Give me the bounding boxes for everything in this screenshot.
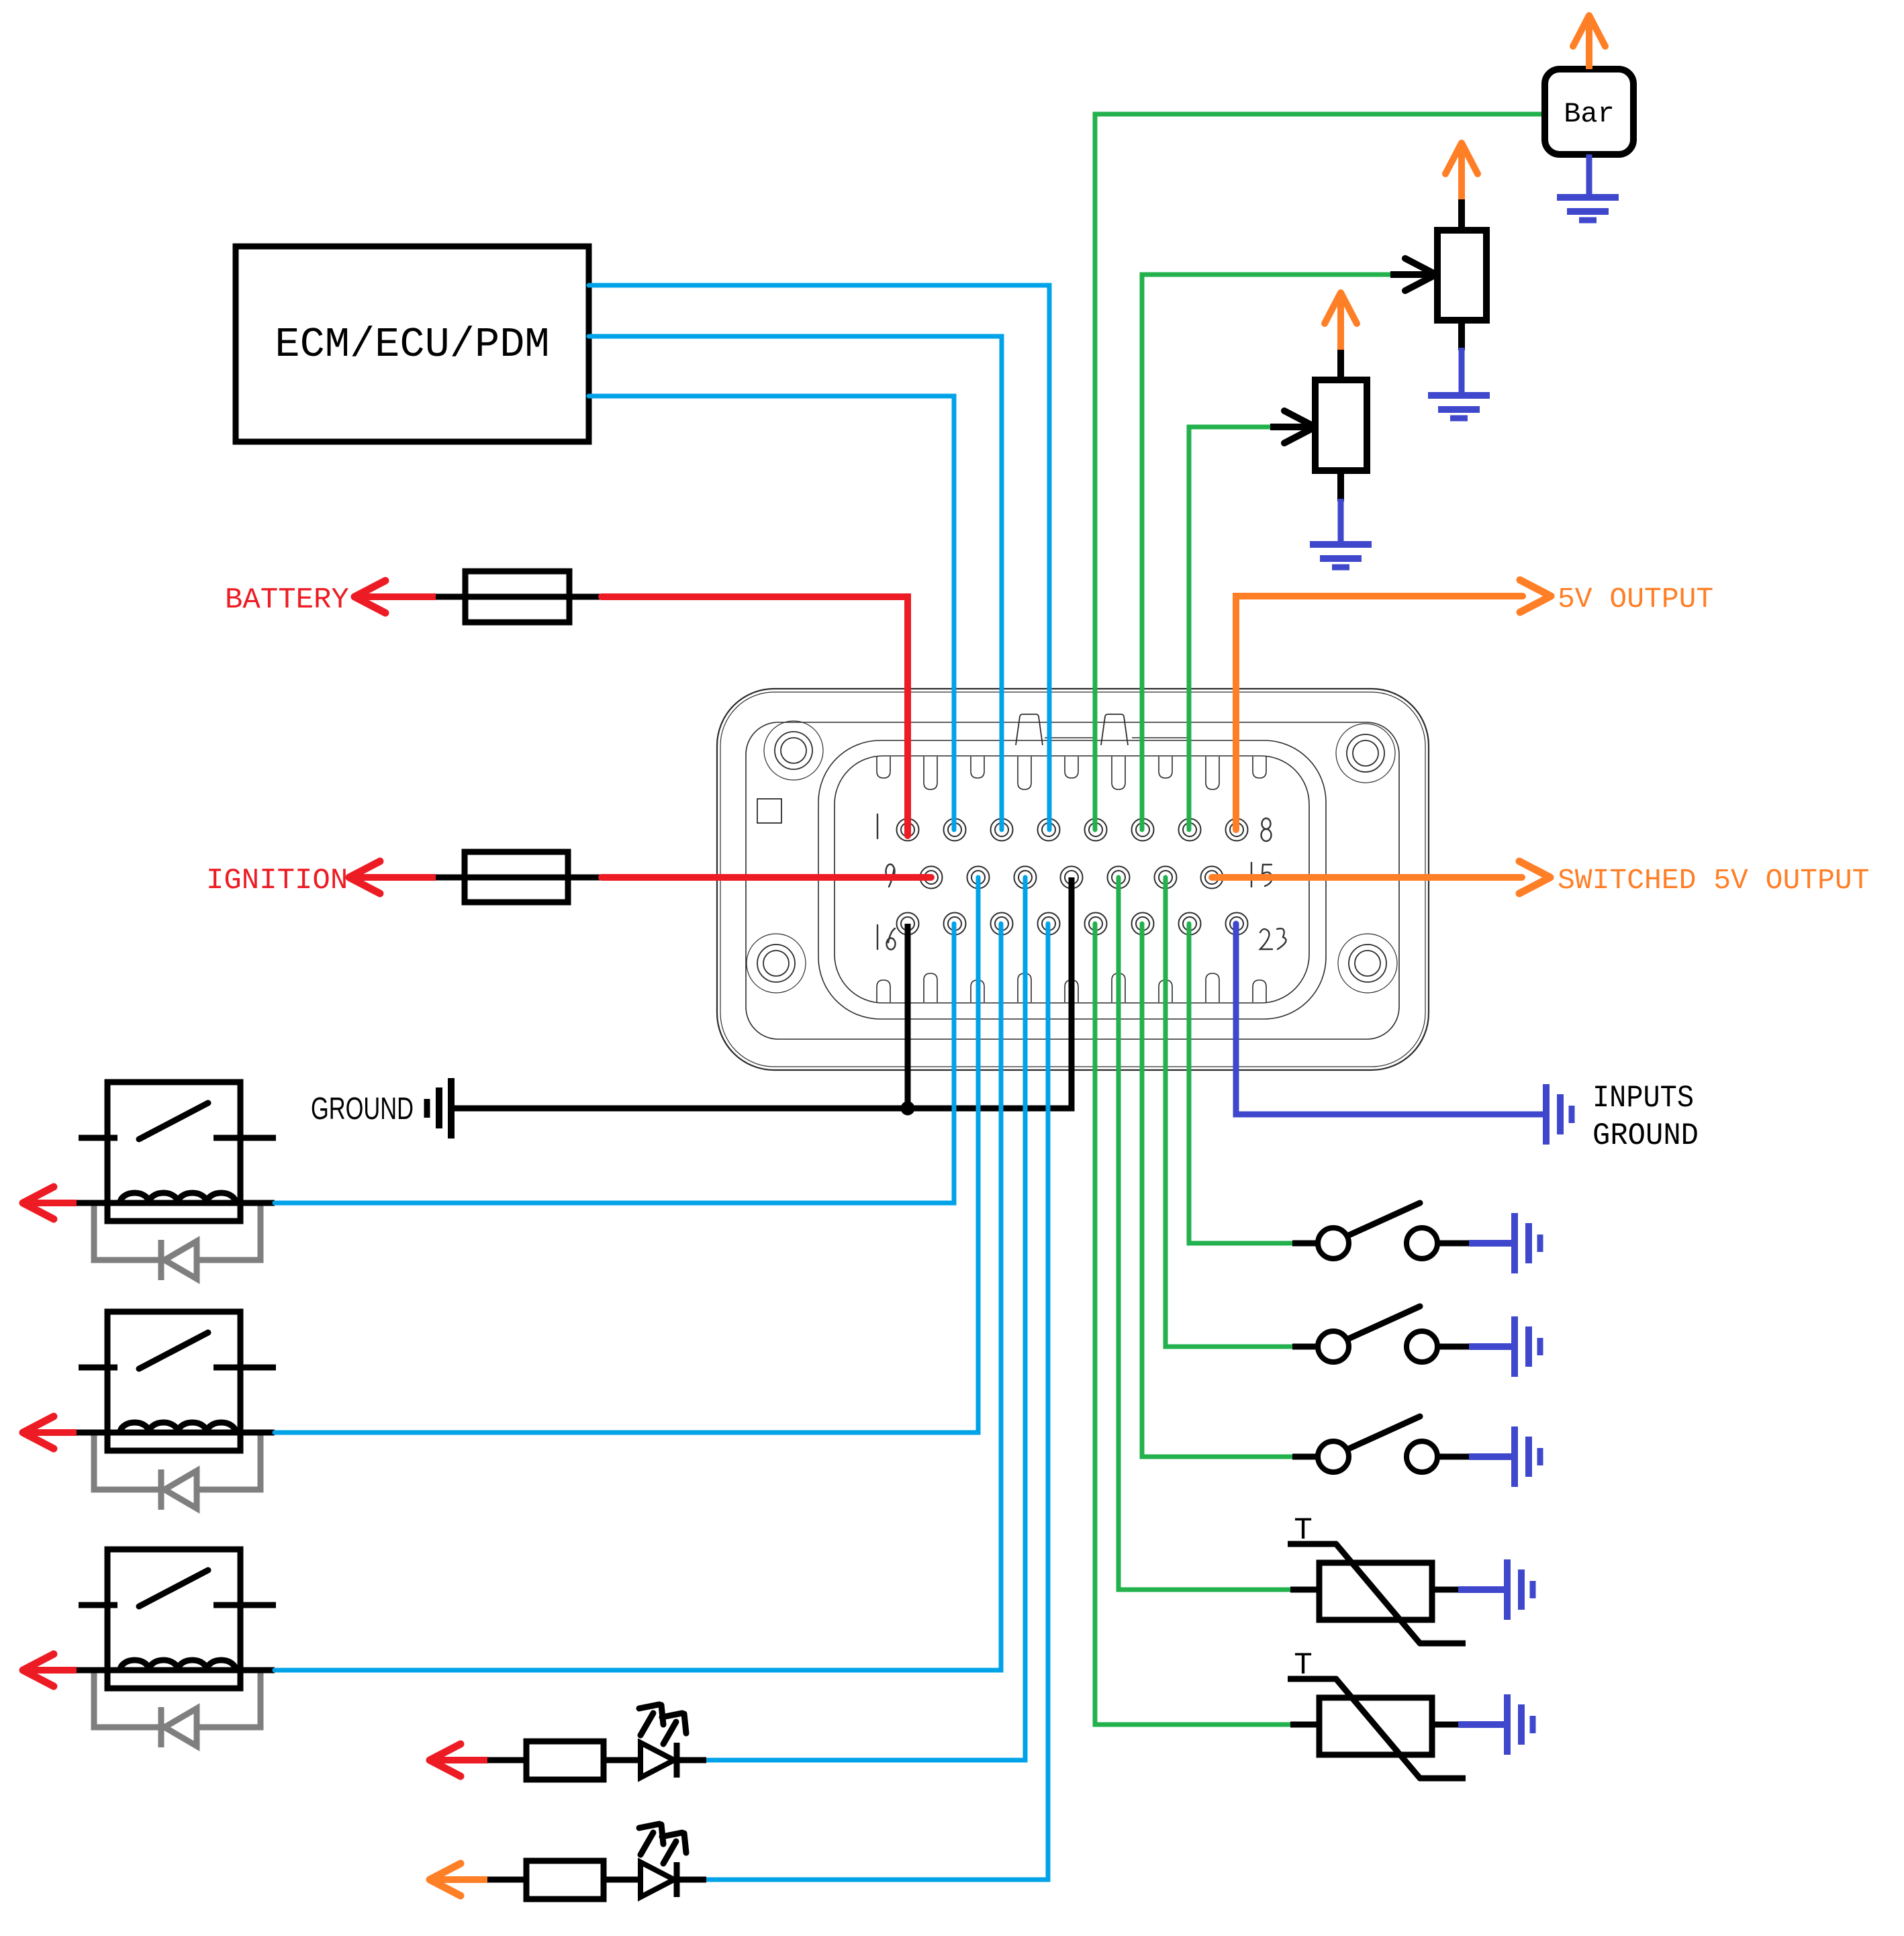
supply arrow at LED2 (orange) [430, 1864, 487, 1896]
flyback diode D2 (gray) [94, 1433, 260, 1510]
SWITCHED 5V OUTPUT arrow [1519, 861, 1550, 893]
BATTERY arrow [354, 581, 385, 613]
supply arrow at relay K2 (red) [23, 1416, 77, 1449]
5V OUTPUT label [1558, 583, 1713, 616]
svg-text:GROUND: GROUND [311, 1091, 414, 1126]
ground symbol under Bar [1557, 197, 1619, 220]
pin 9 label [886, 865, 895, 887]
ground symbol at RT2 [1458, 1694, 1533, 1755]
wire pin 13 to thermistor RT1 (green) [1118, 877, 1290, 1590]
wire pin 8 to 5V OUTPUT (orange) [1236, 596, 1523, 830]
wire R2 to ground (indigo) [1338, 499, 1344, 546]
ground symbol at S2 [1469, 1316, 1540, 1377]
T label at RT2 [1294, 1648, 1313, 1683]
pin 1 label [877, 814, 878, 838]
pin 16 label [877, 925, 896, 950]
5V OUTPUT arrow [1520, 580, 1551, 612]
svg-text:INPUTS: INPUTS [1592, 1081, 1694, 1116]
svg-text:BATTERY: BATTERY [225, 583, 349, 617]
IGNITION arrow [349, 861, 380, 893]
switch S2 (SPST to ground) [1292, 1306, 1469, 1362]
connector pin circles (pins 1-23) [897, 819, 1248, 935]
wire pin 19 to LED2 (blue) [706, 924, 1048, 1880]
pin 23 label [1260, 928, 1286, 949]
supply arrow at LED1 (red) [430, 1744, 487, 1776]
wire pin 23 to inputs ground (indigo) [1236, 924, 1546, 1114]
wire ECM to pin 4 (blue) [589, 285, 1049, 830]
svg-text:ECM/ECU/PDM: ECM/ECU/PDM [275, 321, 549, 369]
fuse F1 (battery feed) [436, 571, 602, 622]
potentiometer R2 (wiper arrow + element) [1270, 347, 1367, 501]
flyback diode D1 (gray) [94, 1203, 260, 1280]
wire pin 18 to relay K3 (blue) [275, 924, 1001, 1670]
wire pin 15 to SWITCHED 5V OUTPUT (orange) [1212, 874, 1522, 881]
pin 8 label [1262, 818, 1272, 841]
wire pin 11 to LED1 (blue) [706, 877, 1025, 1760]
relay K1 (coil + SPST contact) [77, 1082, 276, 1221]
wire pin 14 to switch S2 (green) [1165, 877, 1292, 1347]
wire pin 7 to pot R2 (green) [1189, 427, 1270, 830]
wire pin 21 to switch S3 (green) [1142, 924, 1292, 1457]
wire pin 6 to pot R1 (green) [1142, 275, 1390, 830]
wire R1 to ground (indigo) [1459, 348, 1465, 397]
pin 15 label [1251, 863, 1272, 887]
ground symbol under R2 [1310, 544, 1372, 567]
wire pin 17 to relay K1 (blue) [275, 924, 954, 1203]
wire pin 16 to ground bus (black) [905, 924, 911, 1111]
svg-text:SWITCHED 5V OUTPUT: SWITCHED 5V OUTPUT [1558, 864, 1869, 897]
switch S3 (SPST to ground) [1292, 1416, 1469, 1472]
junction pin 16 / ground bus [901, 1102, 914, 1115]
T label at RT1 [1294, 1513, 1313, 1548]
wire ECM to pin 3 (blue) [589, 336, 1002, 830]
IGNITION label [206, 864, 348, 898]
SWITCHED 5V OUTPUT label [1558, 864, 1869, 897]
wire Bar to ground (indigo) [1586, 154, 1592, 199]
wire pin 10 to relay K2 (blue) [275, 877, 978, 1433]
Bar label [1564, 98, 1615, 130]
ECM/ECU/PDM box U1 [236, 246, 589, 442]
flyback diode D3 (gray) [94, 1670, 260, 1747]
wire pin 22 to switch S1 (green) [1189, 924, 1292, 1243]
connector J1 (AMPSEAL 23-pin housing outline) [717, 689, 1429, 1070]
INPUTS GROUND label [1592, 1081, 1699, 1153]
LED1 symbol [604, 1704, 706, 1778]
GROUND label [311, 1091, 414, 1126]
svg-text:GROUND: GROUND [1592, 1118, 1699, 1153]
wire ground bus from pin 12 (black) [455, 877, 1072, 1108]
thermistor RT1 [1288, 1544, 1466, 1643]
thermistor RT2 [1288, 1679, 1466, 1778]
fuse F2 (ignition feed) [436, 852, 602, 902]
relay K2 (coil + SPST contact) [77, 1312, 276, 1451]
ground symbol at S1 [1469, 1213, 1540, 1273]
wire ignition to pin 9 (red) [349, 874, 931, 881]
svg-text:T: T [1294, 1648, 1313, 1683]
svg-text:5V OUTPUT: 5V OUTPUT [1558, 583, 1713, 616]
wire ECM to pin 2 (blue) [589, 396, 954, 830]
wire pin 5 to Bar sensor (green) [1095, 114, 1545, 830]
ECM/ECU/PDM label [275, 321, 549, 369]
5V supply arrow at R1 (orange) [1445, 143, 1478, 199]
svg-text:T: T [1294, 1513, 1313, 1548]
series resistor at LED1 [487, 1741, 604, 1780]
5V supply arrow at Bar (orange) [1573, 15, 1605, 69]
svg-text:Bar: Bar [1564, 98, 1615, 130]
potentiometer R1 (wiper arrow + element) [1390, 197, 1486, 350]
supply arrow at relay K1 (red) [23, 1187, 77, 1219]
LED2 symbol [604, 1824, 706, 1897]
ground symbol at RT1 [1458, 1559, 1533, 1620]
supply arrow at relay K3 (red) [23, 1654, 77, 1686]
series resistor at LED2 [487, 1861, 604, 1899]
wire pin 20 to thermistor RT2 (green) [1095, 924, 1290, 1725]
switch S1 (SPST to ground) [1292, 1203, 1469, 1259]
ground symbol inputs ground [1546, 1084, 1572, 1145]
ground symbol under R1 [1428, 395, 1490, 418]
relay K3 (coil + SPST contact) [77, 1549, 276, 1688]
BATTERY label [225, 583, 349, 617]
wire battery to pin 1 (red) [354, 597, 908, 836]
ground symbol at S3 [1469, 1426, 1540, 1487]
5V supply arrow at R2 (orange) [1325, 293, 1357, 350]
Bar sensor box [1545, 69, 1633, 154]
svg-text:IGNITION: IGNITION [206, 864, 348, 898]
ground symbol (chassis ground, left) [427, 1078, 451, 1139]
